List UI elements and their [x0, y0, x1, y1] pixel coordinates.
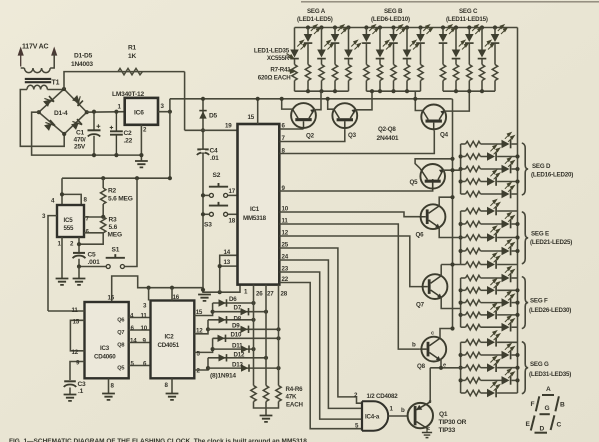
svg-text:1N4003: 1N4003: [71, 61, 93, 68]
resistor R13: [377, 65, 382, 81]
wire: Q2 emitter to SEG A bus: [314, 91, 321, 110]
ground below IC3: [102, 394, 115, 400]
node: SEG G right bus junctions: [515, 353, 519, 357]
svg-text:TIP30 OR: TIP30 OR: [439, 419, 467, 426]
resistor R2: [102, 178, 104, 188]
svg-text:C: C: [557, 422, 562, 429]
wire: S3 left stub: [203, 213, 209, 215]
LED32: [461, 354, 466, 356]
LED9: [406, 28, 408, 50]
resistor R8: [305, 65, 310, 81]
LED7: [379, 28, 381, 50]
diode D8 row: [208, 319, 254, 321]
svg-text:CD4051: CD4051: [158, 342, 180, 349]
LED28: [461, 302, 466, 304]
clock chip IC1: [238, 124, 280, 285]
resistor R25: [466, 179, 481, 184]
svg-text:XC555R: XC555R: [267, 55, 290, 62]
capacitor C1: [88, 112, 101, 155]
svg-text:16: 16: [173, 294, 180, 301]
transformer T1 secondary: [27, 85, 47, 89]
resistor R40: [466, 378, 481, 383]
ground below C3: [64, 395, 77, 401]
wire: Q1 collector to ground: [427, 429, 428, 432]
switch S1: [106, 254, 125, 268]
brace SEG G: [522, 342, 528, 394]
ground below C5: [73, 279, 86, 285]
wire: IC3 Q6 out pin4 to IC2 pin11: [129, 317, 151, 319]
AC input arrows: [19, 49, 57, 67]
wire: bridge minus to C filter rail: [32, 112, 142, 155]
transistor Q7: [421, 274, 447, 299]
svg-text:Q5: Q5: [410, 179, 419, 186]
svg-text:Q6: Q6: [416, 232, 425, 239]
capacitor C5: [73, 253, 86, 267]
svg-text:28: 28: [281, 291, 288, 298]
svg-text:(LED21-LED25): (LED21-LED25): [530, 239, 572, 246]
transistor Q8: [420, 337, 446, 362]
svg-text:LED1-LED35: LED1-LED35: [254, 48, 290, 55]
ground on rail: [198, 295, 211, 301]
wire: IC3 pins 15-12 tie: [70, 320, 84, 351]
svg-text:2N4401: 2N4401: [377, 135, 399, 142]
diode D9 row: [208, 328, 279, 330]
wire: Q1 emitter riser: [429, 368, 431, 402]
resistor R37: [466, 340, 481, 345]
diode D12 row: [208, 357, 266, 359]
diode D7 row: [213, 311, 266, 313]
svg-text:(8)1N914: (8)1N914: [210, 373, 236, 380]
wire: IC2 pin 8 ground: [171, 378, 173, 393]
resistor R7: [292, 65, 297, 81]
wire: S3 to pin 18: [228, 213, 238, 215]
wire: Q3 collector to +12: [328, 99, 334, 109]
LED15: [494, 28, 496, 35]
svg-text:(LED11-LED15): (LED11-LED15): [446, 16, 488, 23]
wire: IC6 pin3 output: [158, 99, 170, 112]
LED26: [461, 277, 466, 279]
wire: R1 down to IC1 pin19: [184, 72, 186, 131]
LED18: [461, 168, 466, 170]
wire: SEG A cathode bus: [295, 90, 349, 92]
ground below IC6: [135, 161, 148, 167]
resistor R31: [466, 262, 481, 267]
LED14: [481, 28, 483, 50]
LED5: [348, 28, 350, 50]
svg-text:D: D: [540, 426, 545, 433]
svg-text:D6: D6: [229, 296, 237, 303]
svg-text:19: 19: [225, 123, 232, 130]
wire: R1 to IC1 pin 19: [185, 129, 238, 131]
transistor Q6: [419, 204, 445, 229]
diode D13 row: [208, 367, 279, 369]
resistor R34: [466, 300, 481, 305]
wire: SEG G anode bus: [460, 342, 462, 393]
resistor R30: [466, 248, 481, 253]
wire: IC1 pin15 riser: [257, 99, 259, 124]
LED1: [294, 28, 296, 50]
svg-text:12: 12: [72, 349, 79, 356]
LED34: [461, 379, 466, 381]
resistor R23: [466, 154, 481, 159]
wire: IC3 pin 9 to C3: [70, 362, 85, 381]
svg-text:.01: .01: [210, 155, 219, 162]
svg-text:C5: C5: [88, 252, 97, 259]
svg-text:S2: S2: [213, 172, 221, 179]
switch S3: [209, 202, 228, 216]
svg-text:SEG B: SEG B: [384, 8, 403, 15]
LED12: [455, 28, 457, 50]
LED8: [393, 28, 395, 35]
LED2: [307, 28, 309, 35]
resistor R32: [466, 275, 481, 280]
svg-text:MM5318: MM5318: [243, 215, 267, 222]
svg-text:CD4060: CD4060: [94, 354, 116, 361]
svg-text:D5: D5: [209, 113, 218, 120]
svg-text:D11: D11: [232, 343, 243, 350]
wire: Q4 emitter to SEG C bus: [444, 91, 469, 111]
LED23: [461, 237, 466, 239]
wire: IC2 pin3 riser: [148, 288, 150, 301]
svg-text:C3: C3: [78, 381, 87, 388]
resistor R12: [364, 65, 369, 81]
switch S2: [209, 183, 228, 197]
resistor R6: [276, 386, 281, 402]
wire: Q6 emitter to SEG E bus: [439, 228, 460, 238]
multiplexer IC2 CD4051: [151, 301, 195, 379]
svg-text:b: b: [412, 342, 416, 349]
resistor R20: [479, 65, 484, 81]
svg-text:470/: 470/: [74, 137, 86, 144]
svg-text:b: b: [401, 407, 405, 414]
svg-text:(LED31-LED35): (LED31-LED35): [529, 371, 571, 378]
resistor R9: [319, 65, 324, 81]
LED13: [468, 28, 470, 35]
svg-text:14: 14: [224, 249, 231, 256]
page top rule: [301, 1, 599, 3]
diode D11 row: [213, 348, 254, 350]
ground below R4-R6: [260, 416, 273, 422]
svg-text:F: F: [531, 401, 535, 408]
wire: SEG E anode bus: [460, 211, 462, 265]
wire: SEG D anode bus: [460, 144, 462, 194]
wire: pins 13 14 riser: [220, 255, 238, 292]
svg-text:R7-R41: R7-R41: [270, 67, 291, 74]
wire: Q4 collector to +12: [415, 91, 422, 110]
wire: 555 +12 feed line: [62, 177, 170, 179]
LED21: [461, 210, 466, 212]
wire: pin4/pin8 bracket: [62, 178, 81, 205]
svg-text:R2: R2: [108, 188, 117, 195]
resistor R19: [467, 65, 472, 81]
svg-text:1/2 CD4082: 1/2 CD4082: [367, 393, 399, 400]
resistor R22: [466, 141, 481, 146]
svg-text:(LED16-LED20): (LED16-LED20): [531, 172, 573, 179]
svg-text:FIG. 1—SCHEMATIC DIAGRAM OF TH: FIG. 1—SCHEMATIC DIAGRAM OF THE FLASHING…: [9, 438, 309, 442]
svg-text:26: 26: [256, 291, 263, 298]
wire: Q8 emitter to SEG G bus: [430, 360, 460, 368]
svg-text:D13: D13: [232, 361, 244, 368]
wire: Q5 collector to +12: [415, 159, 452, 169]
wire: S2 left stub: [203, 194, 209, 196]
svg-text:5.6 MEG: 5.6 MEG: [108, 196, 133, 203]
wire: Q5 emitter to SEG D bus: [443, 169, 461, 171]
svg-text:TIP33: TIP33: [439, 427, 456, 434]
wire: +12V rail: [170, 98, 452, 100]
svg-text:Q8: Q8: [417, 363, 426, 370]
resistor R38: [466, 352, 481, 357]
transistor Q5: [420, 164, 445, 190]
resistor R15: [404, 65, 409, 81]
bridge diode bottom-right: [70, 118, 82, 130]
diode D10 row: [213, 337, 279, 339]
wire: IC3 Q7 out pin6 to IC2 pin10: [129, 329, 151, 331]
svg-text:Q8: Q8: [117, 343, 124, 349]
ground below Q1: [422, 433, 432, 438]
svg-text:SEG A: SEG A: [307, 8, 326, 15]
resistor R36: [466, 325, 481, 330]
svg-text:SEG F: SEG F: [530, 298, 548, 305]
LED17: [461, 156, 466, 158]
LED25: [461, 264, 466, 266]
svg-text:IC3: IC3: [100, 345, 110, 352]
node: top bus junctions: [306, 25, 310, 29]
svg-text:G: G: [545, 405, 550, 412]
svg-text:D12: D12: [234, 352, 246, 359]
svg-text:620Ω EACH: 620Ω EACH: [258, 75, 291, 82]
wire: IC3 pin 11 clock in: [48, 310, 85, 312]
wire: top bus to right-side bus: [517, 28, 519, 394]
resistor R4: [251, 386, 256, 402]
wire: IC2 pin16 riser: [171, 288, 173, 301]
svg-text:D7: D7: [234, 305, 242, 312]
wire: Q7 emitter to SEG F bus: [441, 297, 460, 308]
svg-text:C2: C2: [124, 130, 133, 137]
resistor R3: [101, 217, 106, 233]
brace SEG D: [522, 143, 528, 195]
resistor R33: [466, 288, 481, 293]
node: pin19 junction: [201, 128, 205, 132]
svg-text:SEG E: SEG E: [531, 231, 549, 238]
resistor R11: [346, 65, 351, 81]
svg-text:S1: S1: [112, 247, 120, 254]
transistor Q3: [332, 103, 357, 129]
wire: Q2 collector to +12: [282, 99, 293, 109]
svg-text:Q6: Q6: [117, 318, 124, 324]
svg-text:Q2-Q8: Q2-Q8: [378, 126, 396, 133]
brace SEG F: [522, 277, 528, 329]
svg-text:15: 15: [248, 114, 255, 121]
wire: SEG C cathode bus: [443, 90, 495, 92]
svg-text:Q3: Q3: [348, 132, 357, 139]
svg-text:EACH: EACH: [286, 402, 303, 409]
svg-text:25V: 25V: [74, 144, 86, 151]
ground below IC2: [166, 394, 179, 400]
svg-text:SEG D: SEG D: [532, 163, 551, 170]
wire: S1 to +12: [125, 178, 137, 266]
svg-text:Q7: Q7: [416, 302, 425, 309]
transistor Q2: [291, 103, 316, 129]
svg-text:5.6: 5.6: [109, 224, 118, 231]
svg-text:(LED26-LED30): (LED26-LED30): [529, 307, 571, 314]
wire: Q6 collector to +12: [439, 197, 452, 206]
svg-text:.1: .1: [78, 388, 84, 395]
svg-text:18: 18: [229, 218, 236, 225]
node: SEG E right bus junctions: [515, 222, 519, 226]
wire: Q7 collector to +12 and SEG E bus: [441, 265, 460, 276]
svg-text:A: A: [546, 386, 551, 393]
wire: C5 node to ground: [78, 267, 80, 279]
node: bridge corners: [62, 87, 66, 91]
svg-text:14: 14: [130, 338, 137, 345]
wire: C5 to S1: [79, 266, 106, 268]
svg-text:SEG C: SEG C: [459, 8, 478, 15]
svg-text:11: 11: [141, 313, 148, 320]
svg-text:Q7: Q7: [117, 330, 124, 336]
wire: SEG F anode bus: [460, 278, 462, 327]
wire: IC3 Q5 out pin5 to IC2 pin6: [129, 365, 151, 367]
wire: pin 27 column: [265, 285, 267, 386]
svg-text:SEG G: SEG G: [530, 361, 549, 368]
svg-text:IC6: IC6: [134, 110, 144, 117]
resistor R5: [263, 386, 268, 402]
capacitor C3: [64, 381, 76, 394]
LED33: [461, 367, 466, 369]
LED27: [461, 289, 466, 291]
wire: SEG B cathode bus: [366, 90, 420, 92]
resistor R41: [466, 390, 481, 395]
resistor R24: [466, 166, 481, 171]
counter IC3 CD4060: [85, 302, 129, 378]
svg-text:S3: S3: [204, 222, 212, 229]
node: C1 C2 taps: [92, 110, 96, 114]
resistor R14: [391, 65, 396, 81]
svg-text:R1: R1: [128, 45, 137, 52]
svg-text:27: 27: [267, 291, 274, 298]
svg-text:16: 16: [108, 295, 115, 302]
wire: secondary left lead to bridge bottom: [20, 90, 64, 147]
svg-text:Q2: Q2: [306, 133, 315, 140]
svg-text:13: 13: [224, 259, 231, 266]
bridge diode bottom-left: [43, 119, 55, 131]
svg-text:C1: C1: [76, 130, 85, 137]
node: diode row junctions: [251, 301, 255, 305]
wire: Q3 emitter to SEG B bus: [355, 91, 372, 110]
wire: S2 to pin 17: [228, 194, 238, 196]
svg-text:15: 15: [73, 319, 80, 326]
svg-text:Q5: Q5: [117, 366, 124, 372]
svg-text:IC4-a: IC4-a: [365, 414, 380, 421]
svg-text:11: 11: [72, 307, 79, 314]
svg-text:10: 10: [141, 325, 148, 332]
svg-text:(LED6-LED10): (LED6-LED10): [371, 16, 410, 23]
wire: +12 bus right side: [451, 99, 454, 329]
brace SEG E: [522, 212, 528, 264]
svg-text:IC5: IC5: [64, 217, 74, 224]
svg-text:MEG: MEG: [108, 232, 122, 239]
capacitor C2: [110, 112, 123, 155]
LED16: [461, 143, 466, 145]
diode D6 row: [213, 302, 254, 304]
wire: rail IC3pin16 to IC2 area: [112, 276, 240, 302]
resistor R29: [466, 235, 481, 240]
transformer T1 primary: [21, 53, 55, 73]
svg-text:IC1: IC1: [250, 206, 260, 213]
LED10: [420, 28, 422, 35]
svg-text:D9: D9: [232, 323, 240, 330]
transformer T1 core: [25, 79, 51, 82]
svg-text:D8: D8: [234, 316, 242, 323]
wire: Q8 collector to +12: [440, 329, 453, 339]
wire: pin 26 column: [253, 285, 255, 386]
wire: IC3 Q8 out pin14 to IC2 pin9: [129, 342, 151, 344]
svg-text:12: 12: [196, 328, 203, 335]
resistor R17: [440, 65, 445, 81]
LED35: [461, 392, 466, 394]
svg-text:R4-R6: R4-R6: [286, 386, 304, 393]
bridge rectifier D1-4 frame: [39, 89, 87, 134]
svg-text:B: B: [560, 402, 565, 409]
resistor R1: [118, 68, 143, 74]
wire: IC2 pin2 to diode pair 4: [194, 358, 208, 370]
svg-text:555: 555: [64, 225, 74, 232]
wire: D5 branch vertical: [202, 99, 204, 292]
svg-text:(LED1-LED5): (LED1-LED5): [297, 16, 333, 23]
svg-text:15: 15: [196, 309, 203, 316]
wire: IC2 pin15 to diode pair 1: [194, 303, 212, 316]
wire: IC2 pin5 to diode pair 3: [194, 338, 212, 352]
svg-text:117V AC: 117V AC: [22, 44, 49, 51]
diode D5: [199, 111, 206, 119]
LED3: [321, 28, 323, 50]
bridge diode top-right: [72, 94, 84, 106]
wire: bridge plus to IC6 pin1: [87, 111, 125, 114]
LED6: [365, 28, 367, 35]
7-segment legend: [531, 395, 559, 433]
AND gate IC4-a: [361, 401, 363, 430]
resistor R27: [466, 208, 481, 213]
wire: anode top bus: [295, 27, 518, 29]
wire: IC2 pin12 to diode pair 2: [194, 320, 208, 334]
resistor R39: [466, 365, 481, 370]
svg-text:T1: T1: [52, 80, 60, 87]
svg-text:.22: .22: [124, 138, 133, 145]
transistor Q4: [421, 105, 446, 131]
LED20: [461, 193, 466, 195]
timer IC5 555: [57, 205, 84, 237]
node: SEG D right bus junctions: [515, 154, 519, 158]
voltage regulator IC6: [125, 98, 158, 125]
svg-text:1K: 1K: [128, 53, 136, 60]
bridge diode top-left: [42, 95, 54, 107]
svg-text:Q4: Q4: [440, 132, 449, 139]
wire: pin 28 column: [278, 285, 280, 386]
svg-text:17: 17: [229, 188, 236, 195]
LED31: [461, 341, 466, 343]
resistor R21: [492, 65, 497, 81]
wire: bridge top to R1 line: [64, 72, 185, 89]
transistor Q1 TIP30: [408, 402, 433, 429]
LED30: [461, 326, 466, 328]
svg-text:47K: 47K: [286, 394, 297, 401]
svg-text:IC2: IC2: [165, 334, 175, 341]
LED24: [461, 250, 466, 252]
wire: R4-R6 common to ground: [254, 402, 279, 416]
svg-text:R3: R3: [109, 217, 118, 224]
LED4: [334, 28, 336, 35]
node: SEG F right bus junctions: [515, 288, 519, 292]
wire: IC3 pin 8 ground: [108, 378, 110, 393]
